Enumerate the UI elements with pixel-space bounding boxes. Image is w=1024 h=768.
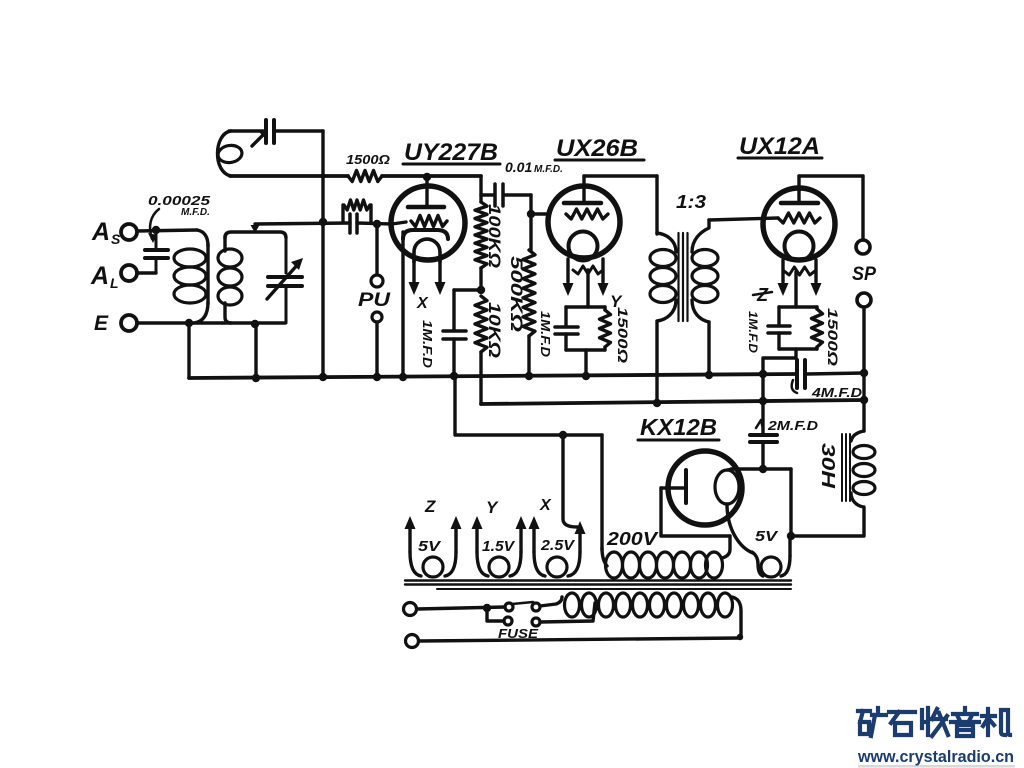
wire U2 plate to T1 — [584, 174, 657, 177]
tube U1 heater — [414, 239, 440, 262]
svg-text:5V: 5V — [755, 528, 779, 545]
wire bus after C9 — [807, 373, 864, 374]
wire E to coil bottom — [137, 321, 222, 324]
terminal AL label — [90, 262, 119, 291]
winding HV 200V — [602, 548, 723, 578]
wire 5V winding to choke — [791, 534, 864, 537]
node SP main bus — [860, 369, 868, 377]
capacitor C10 value label — [756, 418, 819, 433]
tube U3 filament arrow right — [811, 283, 822, 296]
tube U4 label KX12B — [638, 414, 719, 440]
variable capacitor C3 arrow — [267, 258, 303, 299]
capacitor C7 1MFD — [555, 307, 578, 350]
svg-text:1M.F.D: 1M.F.D — [538, 311, 553, 358]
wire tickler bottom — [230, 174, 348, 178]
wire tuned circuit to grid — [255, 223, 350, 224]
wire U2 bias to bus — [584, 350, 587, 376]
svg-text:200V: 200V — [606, 529, 660, 549]
terminal AL — [121, 265, 137, 281]
wire junction to fuse — [487, 608, 504, 621]
wire AC1 to switch — [417, 607, 505, 609]
node tuned circuit top — [319, 218, 327, 226]
node bus R5 — [525, 372, 533, 380]
wire filament to 5V winding — [789, 469, 792, 536]
tube U2 label UX26B — [555, 135, 644, 162]
tube U3 filament lead right — [814, 260, 817, 282]
winding Z 5V — [410, 522, 456, 577]
tube U3 grid — [778, 213, 820, 223]
svg-text:0.01: 0.01 — [505, 159, 532, 175]
node bus C5 — [450, 372, 458, 380]
wire AC2 to primary — [419, 638, 741, 641]
wire cathode network — [454, 288, 481, 291]
svg-text:E: E — [94, 312, 109, 335]
tube U3 plate — [781, 201, 818, 206]
svg-text:1:3: 1:3 — [676, 192, 706, 212]
svg-text:1M.F.D: 1M.F.D — [746, 311, 760, 353]
coil L3 feed stub arrow — [251, 224, 260, 233]
svg-text:KX12B: KX12B — [640, 414, 717, 440]
tube U4 filament bottom lead — [727, 504, 753, 553]
tube U3 UX12A envelope — [763, 188, 835, 260]
switch S1 left contact — [505, 603, 513, 611]
wire C4 to grid node — [357, 223, 392, 224]
node bus PU — [373, 373, 381, 381]
tuning coil L3 secondary — [218, 232, 286, 323]
watermark logo text — [858, 708, 1010, 736]
wire HV winding left lead — [600, 435, 603, 550]
tube U2 filament arrow right — [598, 283, 609, 296]
wire secondary bottom to bus — [254, 324, 257, 378]
capacitor C5 lower lead — [452, 339, 455, 376]
svg-text:L: L — [110, 275, 119, 291]
capacitor C2 pointer arrow — [148, 209, 159, 243]
svg-text:100KΩ: 100KΩ — [485, 204, 504, 268]
tube U2 hum balance resistor — [573, 266, 603, 274]
tube U1 UY227B envelope — [391, 186, 465, 260]
svg-text:2M.F.D: 2M.F.D — [767, 418, 819, 433]
svg-text:M.F.D.: M.F.D. — [534, 164, 563, 175]
node secondary bottom — [251, 320, 259, 328]
svg-text:1M.F.D: 1M.F.D — [420, 320, 435, 369]
winding X arrow right — [575, 521, 586, 534]
svg-text:1500Ω: 1500Ω — [346, 152, 390, 167]
svg-text:5V: 5V — [418, 538, 442, 555]
node bus secondary — [252, 374, 260, 382]
tube U1 grid — [411, 216, 447, 227]
wire U3 bias to bus — [763, 349, 796, 373]
resistor R3 lead — [479, 268, 482, 290]
winding rectifier 5V — [752, 536, 790, 577]
wire R1 to plate node — [382, 174, 481, 178]
tube U4 filament top lead — [727, 469, 733, 470]
tube U2 UX26B envelope — [548, 186, 620, 258]
tube U3 hum balance resistor — [784, 267, 815, 275]
switch S1 blade — [512, 602, 533, 604]
svg-text:SP: SP — [852, 264, 876, 285]
tube U1 cathode arc — [403, 230, 448, 239]
bias network U2 bottom wire — [566, 348, 605, 351]
wire plate to C6 — [479, 176, 482, 202]
capacitor C6 value label — [505, 159, 563, 175]
terminal AC line 2 — [406, 635, 419, 648]
tube U2 filament loop — [569, 232, 598, 261]
tube U3 filament lead left — [781, 260, 784, 282]
terminal SP upper — [856, 240, 870, 254]
tube U3 filament arrow left — [778, 283, 789, 296]
wire L2 bottom to bus — [187, 323, 190, 378]
svg-text:PU: PU — [358, 290, 392, 311]
svg-text:Z: Z — [424, 497, 436, 516]
wire SP to choke — [862, 307, 865, 431]
choke L4 30H top lead — [851, 431, 864, 441]
node bus cathode U1 — [399, 373, 407, 381]
terminal PU upper — [371, 275, 383, 287]
wire secondary bottom — [222, 321, 285, 324]
wire grid U2 — [531, 212, 548, 215]
tube U2 plate lead — [582, 176, 585, 202]
capacitor C5 1MFD — [443, 331, 466, 339]
terminal SP lower — [857, 293, 871, 307]
capacitor C10 2MFD — [750, 435, 777, 442]
tube U1 heater arrow left — [409, 282, 420, 295]
wire to X winding — [563, 435, 577, 527]
wire R5 to bus — [527, 336, 530, 376]
node C10 filament wire — [759, 465, 767, 473]
tube U2 filament lead right — [601, 259, 604, 282]
node grid PU junction — [373, 220, 381, 228]
wire lower bus — [481, 400, 864, 404]
wire tickler top to trimmer — [229, 129, 263, 132]
wire switch to primary — [540, 597, 562, 606]
svg-text:2.5V: 2.5V — [540, 537, 576, 554]
node C10 lower bus — [759, 397, 767, 405]
svg-text:1500Ω: 1500Ω — [615, 307, 631, 363]
wire main bus — [189, 374, 795, 378]
node 5V winding B+ — [787, 532, 795, 540]
svg-text:www.crystalradio.cn: www.crystalradio.cn — [857, 747, 1014, 766]
wire fuse to primary tap — [540, 603, 595, 622]
tube U4 plate — [684, 470, 688, 503]
node bus trimmer net — [319, 373, 327, 381]
tube U3 label UX12A — [738, 133, 822, 160]
svg-text:0.00025: 0.00025 — [148, 193, 211, 208]
capacitor C8 1MFD — [768, 307, 790, 349]
wire U1 cathode to bus — [401, 232, 404, 377]
node T1 secondary bus — [705, 371, 713, 379]
winding Y arrow left — [472, 516, 483, 529]
wire R4 to lower bus — [479, 352, 482, 404]
wire U3 plate to speaker — [799, 174, 863, 177]
wire C6 to grid node U2 — [505, 193, 531, 196]
wire T1 secondary to U3 grid — [709, 218, 778, 220]
wire T1 primary bottom to lower bus — [655, 322, 658, 403]
resistor R5 500KΩ — [523, 250, 535, 336]
terminal PU lower — [372, 312, 382, 322]
transformer T1 secondary winding — [692, 220, 718, 322]
terminal AC line 1 — [404, 603, 417, 616]
node E junction — [185, 319, 193, 327]
node U2 grid junction — [527, 210, 535, 218]
winding X 2.5V — [534, 522, 580, 577]
tube U1 plate — [408, 205, 444, 210]
svg-text:UX12A: UX12A — [739, 133, 820, 160]
transformer T2 core — [405, 581, 791, 590]
tube U1 grid lead — [392, 222, 406, 224]
capacitor C2 value label — [148, 193, 211, 218]
transformer T1 core — [679, 233, 688, 321]
svg-text:UX26B: UX26B — [556, 135, 638, 162]
wire PU to bus — [375, 322, 378, 377]
svg-text:Y: Y — [486, 498, 499, 517]
bias network U2 top wire — [566, 305, 605, 308]
tube U2 filament lead left — [566, 259, 569, 282]
svg-text:A: A — [91, 218, 110, 246]
transformer T1 primary winding — [650, 233, 676, 321]
svg-text:4M.F.D: 4M.F.D — [811, 385, 863, 400]
capacitor C9 4MFD — [792, 360, 805, 393]
watermark bottom edge artifact — [858, 765, 1015, 768]
wire U3 center tap — [794, 272, 797, 307]
tube U1 heater lead left — [412, 260, 415, 283]
tube U3 filament loop — [785, 232, 814, 261]
wire U4 plate to HV winding — [661, 488, 730, 536]
trimmer C1 adjust arrow — [252, 130, 268, 146]
trimmer capacitor C1 — [266, 120, 274, 143]
node bus U2 bias — [582, 372, 590, 380]
node U3 bias bus — [759, 370, 767, 378]
wire As to coil — [137, 230, 197, 231]
fuse F1 right contact — [532, 618, 540, 626]
wire lower bus to C10 — [761, 374, 764, 433]
svg-text:M.F.D.: M.F.D. — [181, 207, 210, 218]
wire HV winding right lead — [722, 536, 730, 558]
capacitor C2 0.00025 MFD — [145, 232, 168, 273]
terminal As — [121, 224, 137, 240]
node T1 primary lower bus — [653, 399, 661, 407]
tube U1 heater lead right — [438, 260, 441, 283]
resistor R1 1500Ω — [348, 171, 382, 182]
winding primary T2 — [565, 593, 742, 637]
tube U4 filament loop — [715, 470, 739, 504]
resistor R4 10KΩ — [475, 296, 487, 352]
winding Z arrow left — [405, 516, 416, 529]
tube U2 grid — [566, 209, 608, 219]
bias network U3 bottom wire — [779, 347, 817, 350]
tube U4 plate lead — [661, 486, 686, 489]
winding Y 1.5V — [477, 522, 521, 577]
tube U1 plate lead — [425, 179, 428, 207]
wire U2 center tap — [586, 270, 589, 307]
wire grid node to PU — [375, 224, 378, 274]
grid capacitor C4 — [350, 214, 357, 233]
node primary corner — [737, 634, 743, 640]
terminal As label — [91, 218, 121, 247]
wire U4 filament to B+ — [731, 467, 791, 470]
wire T1 secondary bottom to bus — [707, 322, 710, 375]
grid leak resistor R2 — [343, 200, 371, 222]
svg-text:1.5V: 1.5V — [482, 538, 516, 555]
capacitor C6 0.01MFD — [495, 184, 503, 206]
choke L4 core — [842, 434, 850, 501]
label Z filament UX12A — [753, 285, 772, 305]
node 100K-10K junction — [477, 286, 485, 294]
svg-text:1500Ω: 1500Ω — [825, 308, 841, 366]
svg-text:UY227B: UY227B — [404, 139, 498, 166]
tickler coil L1 loop body — [217, 131, 243, 176]
node SP lower bus — [860, 396, 868, 404]
choke L4 bottom lead — [851, 493, 864, 535]
node UY227B plate junction — [423, 173, 431, 181]
svg-text:500KΩ: 500KΩ — [507, 256, 526, 332]
capacitor C5 1MFD lead — [452, 290, 455, 330]
resistor R7 1500Ω — [812, 307, 823, 349]
tube U3 plate lead — [797, 176, 800, 203]
variable capacitor C3 tuning — [268, 238, 302, 323]
node As junction — [152, 226, 160, 234]
wire trimmer net vertical — [321, 131, 324, 377]
svg-text:30H: 30H — [818, 443, 838, 489]
resistor R3 100KΩ — [475, 202, 487, 268]
node switch fuse junction — [483, 604, 491, 612]
node X winding tap — [559, 431, 567, 439]
winding X arrow left — [529, 516, 540, 529]
svg-text:X: X — [539, 497, 552, 514]
tube U1 heater arrow right — [435, 282, 446, 295]
wire C10 to rectifier — [761, 442, 764, 469]
svg-text:A: A — [90, 262, 109, 290]
winding Y arrow right — [516, 516, 527, 529]
tube U2 filament arrow left — [563, 283, 574, 296]
choke L4 winding — [853, 446, 875, 495]
antenna coil L2 primary — [174, 230, 208, 323]
resistor R6 1500Ω — [600, 307, 611, 350]
tube U2 plate — [564, 201, 601, 206]
svg-text:X: X — [416, 295, 429, 312]
bias network U3 top wire — [779, 305, 817, 308]
tube U4 KX12B envelope — [668, 451, 742, 525]
wire trimmer to vertical — [276, 129, 323, 132]
fuse F1 left contact — [504, 617, 512, 625]
wire AL to capacitor C2 — [137, 271, 156, 274]
svg-text:10KΩ: 10KΩ — [485, 302, 504, 358]
switch S1 right contact — [532, 603, 540, 611]
wire bus to HV winding — [455, 376, 602, 435]
winding Z arrow right — [451, 516, 462, 529]
terminal E — [121, 315, 137, 331]
tube U1 label UY227B — [403, 139, 500, 166]
